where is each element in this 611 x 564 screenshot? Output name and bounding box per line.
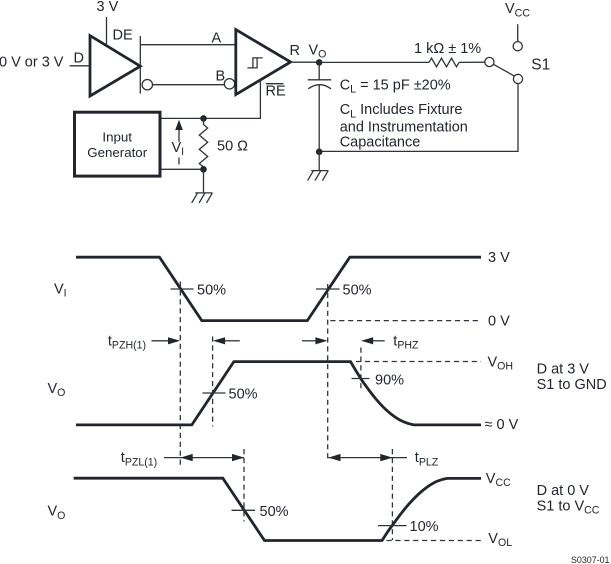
svg-text:A: A: [212, 30, 222, 46]
tPZH arrowhead right: [168, 337, 180, 344]
switch arm: [493, 64, 514, 76]
tick 50% VI fall: [171, 288, 194, 290]
waveform VO high-impedance to low: [74, 478, 481, 540]
svg-text:VO: VO: [48, 381, 66, 399]
driver U1: [90, 36, 140, 96]
waveform VI: [76, 257, 481, 320]
dashed vertical v4: [327, 284, 329, 460]
svg-text:RE: RE: [266, 83, 286, 99]
receiver U2: [236, 30, 291, 95]
wire B: [153, 84, 225, 86]
svg-text:CL Includes Fixture: CL Includes Fixture: [340, 102, 463, 120]
svg-text:tPZH(1): tPZH(1): [108, 333, 146, 351]
VCC wire: [517, 24, 519, 41]
tick 50% VI rise: [316, 288, 340, 290]
svg-text:R: R: [290, 43, 300, 59]
svg-text:VI: VI: [54, 282, 67, 300]
svg-text:S1: S1: [531, 56, 550, 73]
svg-text:VOL: VOL: [488, 531, 512, 549]
svg-text:VOH: VOH: [488, 354, 514, 372]
svg-text:tPZL(1): tPZL(1): [121, 450, 157, 468]
svg-text:VCC: VCC: [486, 471, 511, 489]
tPLZ arrow: [328, 457, 407, 459]
svg-text:VI: VI: [172, 140, 185, 158]
svg-text:50%: 50%: [343, 282, 372, 298]
dashed vertical v1: [179, 282, 181, 469]
capacitor CL top plate: [308, 79, 331, 81]
arrow right at v4: [302, 340, 316, 342]
dashed vertical v6: [391, 449, 393, 540]
switch S1 upper contact: [513, 42, 522, 51]
svg-text:Generator: Generator: [87, 145, 147, 160]
tPZL arrow: [164, 457, 244, 459]
tick 10%: [378, 525, 407, 527]
svg-text:D at 3 V: D at 3 V: [537, 361, 590, 377]
ground (generator): [192, 169, 213, 203]
tick 90%: [352, 378, 370, 380]
svg-text:VO: VO: [309, 43, 327, 61]
resistor 50 Ohm: [199, 118, 207, 169]
svg-text:90%: 90%: [375, 373, 404, 389]
driver inverting bubble: [142, 80, 152, 90]
svg-text:S1 to GND: S1 to GND: [537, 377, 607, 393]
svg-text:0 V: 0 V: [488, 314, 510, 330]
svg-text:D: D: [74, 50, 84, 66]
input generator box: [75, 112, 161, 176]
receiver input bubble: [224, 79, 234, 89]
svg-text:VO: VO: [48, 504, 66, 522]
wire resistor to S1: [459, 61, 485, 63]
VI arrow: [175, 120, 183, 130]
node VI junction: [200, 115, 207, 122]
svg-text:50%: 50%: [197, 282, 226, 298]
svg-text:3 V: 3 V: [488, 250, 510, 266]
wire S1 to ground bus: [319, 84, 518, 152]
svg-text:tPHZ: tPHZ: [393, 333, 419, 351]
svg-text:S0307-01: S0307-01: [571, 555, 610, 564]
arrow left at v2: [213, 337, 225, 344]
resistor 1 kOhm: [429, 58, 459, 67]
D input wire: [70, 65, 90, 67]
R output wire: [291, 61, 320, 63]
svg-text:S1 to VCC: S1 to VCC: [537, 498, 600, 516]
arrow left at v5: [361, 337, 373, 344]
svg-text:50%: 50%: [260, 504, 289, 520]
svg-text:DE: DE: [113, 28, 133, 44]
capacitor CL curved plate: [308, 85, 331, 89]
node ground bus junction: [316, 149, 323, 156]
svg-text:≈ 0 V: ≈ 0 V: [485, 417, 519, 433]
capacitor CL stems: [318, 62, 320, 151]
dashed vertical v2: [212, 337, 214, 427]
svg-text:D at 0 V: D at 0 V: [537, 483, 590, 499]
svg-text:tPLZ: tPLZ: [415, 450, 439, 468]
svg-text:VCC: VCC: [505, 1, 530, 19]
svg-text:B: B: [216, 69, 226, 85]
DE pin wire: [106, 17, 108, 46]
svg-text:10%: 10%: [410, 519, 439, 535]
RE overline: [266, 83, 284, 85]
VOH dashed level: [356, 361, 481, 363]
node VO: [316, 59, 323, 66]
0 V dashed level: [330, 320, 481, 322]
switch S1 lower contact: [513, 74, 522, 83]
VOL dashed level: [387, 540, 482, 542]
svg-text:50%: 50%: [229, 387, 258, 403]
tPZH arrow lead: [152, 340, 170, 342]
tick 50% VO fall: [232, 509, 256, 511]
driver output bar: [139, 36, 141, 94]
wire VO to resistor: [319, 61, 429, 63]
node ground junction: [200, 166, 207, 173]
svg-text:CL = 15 pF ±20%: CL = 15 pF ±20%: [340, 77, 451, 95]
wire generator bottom: [162, 168, 204, 170]
dashed vertical v5: [360, 348, 362, 392]
VI dashed stem: [178, 158, 180, 165]
svg-text:0 V or 3 V: 0 V or 3 V: [0, 54, 64, 70]
ground (capacitor): [308, 152, 329, 181]
tick 50% VO rise: [203, 392, 226, 394]
wire VI to RE: [162, 80, 261, 118]
switch S1 common contact: [485, 57, 494, 66]
svg-text:1 kΩ ± 1%: 1 kΩ ± 1%: [414, 41, 481, 57]
waveform VO high-impedance to high: [76, 362, 481, 425]
svg-text:3 V: 3 V: [97, 0, 119, 15]
wire A: [140, 44, 236, 46]
svg-text:and Instrumentation: and Instrumentation: [340, 120, 468, 136]
svg-text:50 Ω: 50 Ω: [217, 139, 248, 155]
svg-text:Input: Input: [102, 130, 132, 145]
dashed vertical v3: [243, 449, 245, 522]
svg-text:Capacitance: Capacitance: [340, 134, 421, 150]
hysteresis symbol: [247, 58, 262, 68]
